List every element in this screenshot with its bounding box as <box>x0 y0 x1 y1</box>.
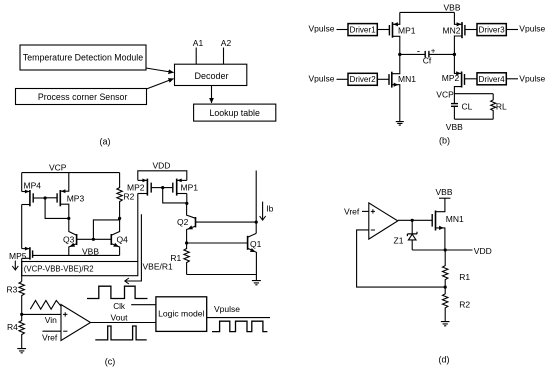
arrow Process corner Sensor to Decoder <box>146 79 173 89</box>
wire VBB rail to MP5 gate <box>33 254 120 256</box>
arrow current direction down <box>14 261 16 270</box>
wire gate junction to MP1 drain <box>163 188 187 203</box>
svg-text:RL: RL <box>496 101 507 111</box>
block Driver4 <box>477 73 506 85</box>
svg-text:-: - <box>417 47 420 58</box>
svg-text:CL: CL <box>462 101 473 111</box>
svg-text:Driver2: Driver2 <box>350 75 377 84</box>
wire noninverting input <box>22 313 61 315</box>
svg-text:Q1: Q1 <box>250 239 262 249</box>
svg-text:Driver3: Driver3 <box>479 26 506 35</box>
wire MP2 drain down to formula box corner <box>137 194 139 262</box>
ground below R4 <box>17 349 26 353</box>
wire base junction to R2 bottom node <box>93 218 119 239</box>
transistor MN1 of d <box>432 198 445 250</box>
svg-text:VDD: VDD <box>153 160 171 170</box>
svg-text:Driver1: Driver1 <box>350 26 377 35</box>
ground below MN1 <box>396 122 404 126</box>
resistor R3 <box>19 282 24 315</box>
node MP4 MP3 gate junction <box>44 196 47 199</box>
svg-text:MP1: MP1 <box>398 25 416 35</box>
block Driver2 <box>348 73 377 85</box>
svg-text:(a): (a) <box>100 137 111 147</box>
transistor MN1 <box>389 54 400 121</box>
wire left rail MP5 to R3 <box>21 258 23 281</box>
node R3 R4 junction <box>20 313 23 316</box>
wire gate junction to MP3 drain node <box>45 198 69 218</box>
svg-text:Decoder: Decoder <box>194 71 228 81</box>
arrow Temperature module to Decoder <box>146 68 174 73</box>
wire Vout to Logic model <box>91 322 156 324</box>
wire Q3 Q4 base <box>77 238 112 240</box>
box around current formula <box>22 262 138 276</box>
wire bottom R1 to Q1 emitter <box>187 274 257 276</box>
node R2 bottom <box>118 217 121 220</box>
svg-text:A2: A2 <box>221 38 232 48</box>
block Logic model <box>156 297 207 332</box>
wire A1 to Decoder <box>195 48 197 65</box>
svg-text:MP4: MP4 <box>24 181 42 191</box>
block Lookup table <box>194 104 276 121</box>
wire Driver1 to MP1 gate <box>378 29 390 31</box>
svg-text:Q2: Q2 <box>177 217 189 227</box>
transistor Q3 <box>69 218 77 255</box>
transistor MP1 <box>389 12 399 54</box>
node source junction <box>444 248 447 251</box>
svg-text:Q3: Q3 <box>63 235 75 245</box>
svg-text:Process corner Sensor: Process corner Sensor <box>38 92 128 102</box>
op-amp comparator <box>61 305 91 341</box>
svg-text:VCP: VCP <box>49 162 67 172</box>
node MP gate junction <box>161 186 164 189</box>
svg-text:MN1: MN1 <box>446 214 464 224</box>
wire feedback to inverting input <box>357 230 446 287</box>
svg-text:+: + <box>431 47 436 56</box>
svg-text:Clk: Clk <box>113 302 126 311</box>
svg-text:Vin: Vin <box>45 315 57 325</box>
capacitor CL <box>451 94 458 120</box>
op-amp of d <box>369 203 398 239</box>
svg-text:Vpulse: Vpulse <box>309 24 335 34</box>
transistor MP1 of c <box>163 179 187 196</box>
svg-text:Ib: Ib <box>266 203 273 213</box>
wire Vpulse output <box>207 317 270 319</box>
node Cf left junction <box>398 53 401 56</box>
sawtooth Vin symbol <box>30 301 61 310</box>
resistor RL <box>491 94 496 120</box>
transistor Q1 <box>248 233 257 274</box>
svg-text:A1: A1 <box>193 38 204 48</box>
wire VBB bottom of CL RL <box>454 118 493 120</box>
wire R1 top to Q1 base <box>187 242 248 244</box>
ground below R2 of d <box>441 322 450 326</box>
svg-text:Vpulse: Vpulse <box>519 24 545 34</box>
resistor R1 of d <box>443 250 448 287</box>
node Cf right junction <box>453 53 456 56</box>
svg-text:VDD: VDD <box>474 246 492 256</box>
block Temperature Detection Module <box>20 45 146 70</box>
svg-text:MP3: MP3 <box>67 194 85 204</box>
block Driver1 <box>348 24 377 36</box>
node MP1 drain junction <box>185 202 188 205</box>
svg-text:Vpulse: Vpulse <box>309 73 335 83</box>
svg-text:VBB: VBB <box>82 247 99 257</box>
transistor Q2 <box>187 204 257 243</box>
svg-text:VBB: VBB <box>436 187 453 197</box>
svg-text:MN1: MN1 <box>398 74 416 84</box>
wire MN2 gate to Driver3 <box>465 29 477 31</box>
wire A2 to Decoder <box>223 48 225 65</box>
resistor R2 of d <box>443 287 448 321</box>
transistor MP5 <box>22 247 33 260</box>
svg-text:Driver4: Driver4 <box>479 75 506 84</box>
svg-text:MP2: MP2 <box>127 183 145 193</box>
svg-text:R1: R1 <box>170 253 181 263</box>
wire Driver3 to Vpulse <box>506 29 518 31</box>
wire VDD rail <box>138 171 187 181</box>
svg-text:Vpulse: Vpulse <box>214 304 240 314</box>
zener diode Z1 <box>407 220 417 250</box>
svg-text:Vref: Vref <box>42 333 58 343</box>
wire VBB top rail <box>400 11 455 13</box>
resistor R2 <box>117 173 122 219</box>
node R1 top junction <box>185 241 188 244</box>
wire Ib vertical <box>255 171 257 234</box>
svg-text:(c): (c) <box>105 356 116 366</box>
svg-text:MP1: MP1 <box>181 182 199 192</box>
svg-text:R3: R3 <box>7 284 18 294</box>
block Decoder <box>175 64 247 85</box>
block Driver3 <box>477 24 506 36</box>
svg-text:R4: R4 <box>7 322 18 332</box>
arrow Decoder to Lookup table <box>211 86 213 104</box>
wire VBE/R1 with arrow <box>125 214 142 281</box>
resistor R1 of c <box>184 243 189 275</box>
wire Vref input <box>43 330 62 332</box>
svg-text:MP5: MP5 <box>9 251 27 261</box>
svg-text:(d): (d) <box>439 354 450 364</box>
svg-text:R1: R1 <box>459 272 470 282</box>
svg-text:Vpulse: Vpulse <box>519 73 545 83</box>
svg-text:Q4: Q4 <box>117 235 129 245</box>
block Process corner Sensor <box>16 89 147 105</box>
svg-text:(VCP-VBB-VBE)/R2: (VCP-VBB-VBE)/R2 <box>24 265 94 274</box>
wire left rail VCP to MP4 <box>21 173 23 192</box>
waveform Vout pulses <box>95 326 146 340</box>
transistor Q4 <box>111 218 119 255</box>
resistor R4 <box>19 314 24 348</box>
svg-text:VBB: VBB <box>444 3 461 13</box>
wire Clk to Logic model <box>131 304 156 306</box>
transistor MP3 <box>45 173 69 219</box>
power VBB stub <box>439 197 450 199</box>
wire MP2 gate to Driver4 <box>465 78 478 80</box>
svg-text:(b): (b) <box>439 135 450 145</box>
capacitor Cf <box>400 51 455 58</box>
transistor MN2 <box>454 12 465 54</box>
wire Vpulse to Driver2 <box>337 78 349 80</box>
wire MP1 drain down <box>186 194 188 205</box>
svg-text:MP2: MP2 <box>442 73 460 83</box>
wire VCP node to RL branch <box>454 93 493 95</box>
waveform Clk pulses <box>87 286 148 298</box>
node base junction <box>92 238 95 241</box>
svg-text:Lookup table: Lookup table <box>210 108 260 118</box>
svg-text:Z1: Z1 <box>394 235 404 245</box>
node R1 R2 junction of d <box>444 286 447 289</box>
svg-text:Vout: Vout <box>111 312 129 322</box>
svg-text:MN2: MN2 <box>443 25 461 35</box>
wire left rail MP4 to MP5 <box>21 205 23 249</box>
wire Driver2 to MN1 gate <box>377 78 389 80</box>
svg-text:VCP: VCP <box>436 90 454 100</box>
arrow Ib annotation <box>262 202 264 221</box>
svg-text:R2: R2 <box>459 299 470 309</box>
wire Vpulse to Driver1 <box>337 29 349 31</box>
svg-text:Cf: Cf <box>423 56 432 66</box>
svg-text:Logic model: Logic model <box>158 309 204 319</box>
svg-text:VBB: VBB <box>446 122 463 132</box>
wire Z1 bottom to VDD <box>412 249 472 251</box>
svg-text:Temperature Detection Module: Temperature Detection Module <box>23 53 143 63</box>
wire Driver4 to Vpulse <box>506 78 518 80</box>
transistor MP4 <box>22 190 45 207</box>
wire Vref input of d <box>362 210 369 212</box>
wire op-amp output to MN1 gate <box>398 219 432 221</box>
transistor MP2 <box>454 54 464 93</box>
node MP3 drain <box>67 217 70 220</box>
node Q2 base to Ib junction <box>255 221 258 224</box>
svg-text:VBE/R1: VBE/R1 <box>143 261 174 271</box>
waveform Vpulse output <box>212 321 267 331</box>
svg-text:R2: R2 <box>124 192 135 202</box>
transistor MP2 of c <box>138 179 163 196</box>
svg-text:Vref: Vref <box>344 207 360 217</box>
wire VCP rail <box>22 172 120 174</box>
node Z1 tap junction <box>411 219 414 222</box>
ground below Q1 <box>252 275 261 285</box>
